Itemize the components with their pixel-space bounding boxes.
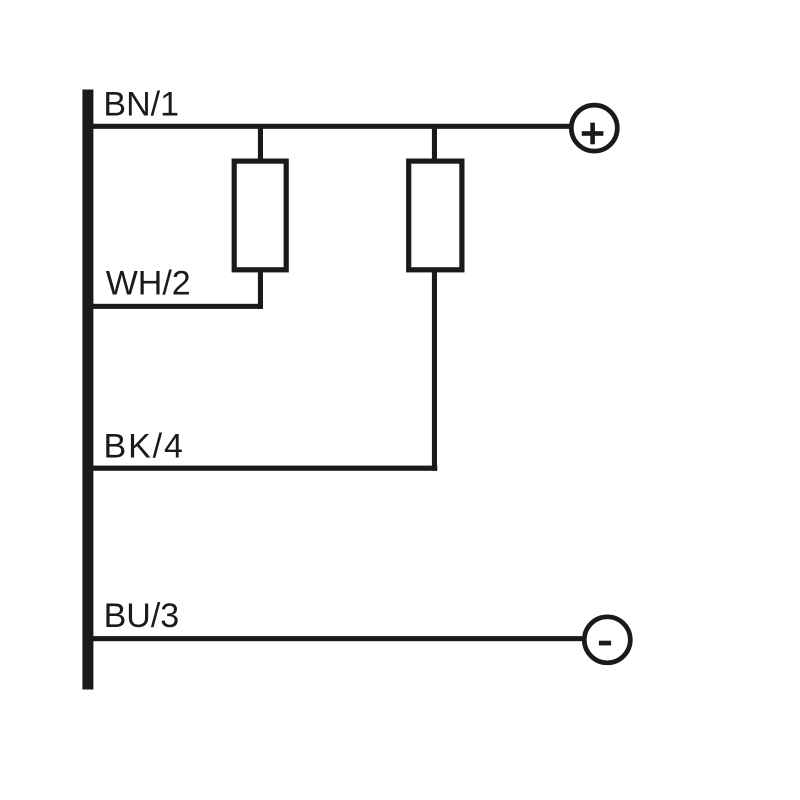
wire BN/1 (pin 1 to + terminal) — [88, 124, 570, 129]
wire: stub from BN/1 down to load L2 — [432, 126, 437, 161]
svg-text:WH/2: WH/2 — [106, 265, 191, 303]
load L2 (output load rectangle) — [409, 161, 462, 270]
svg-text:BU/3: BU/3 — [104, 597, 180, 635]
wire BK/4 (pin 4 to load L2) — [88, 466, 437, 471]
wire: stub from BN/1 down to load L1 — [258, 126, 263, 161]
svg-text:BK/4: BK/4 — [104, 428, 185, 466]
wire: stub from load L1 down to WH/2 — [258, 270, 263, 309]
load L1 (output load rectangle) — [234, 161, 286, 270]
terminal circle + (supply plus) — [571, 105, 617, 151]
minus sign — [599, 641, 611, 646]
wire WH/2 (pin 2 to load L1) — [88, 304, 263, 309]
supply bus (vertical rail) — [82, 90, 93, 690]
svg-text:BN/1: BN/1 — [103, 86, 179, 124]
wire BU/3 (pin 3 to - terminal) — [88, 636, 582, 641]
terminal circle - (supply minus) — [584, 617, 630, 663]
wire: stub from load L2 down to BK/4 — [432, 270, 437, 471]
plus sign — [582, 123, 604, 145]
